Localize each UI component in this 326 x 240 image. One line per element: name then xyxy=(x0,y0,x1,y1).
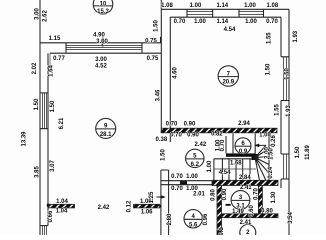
svg-text:1.00: 1.00 xyxy=(186,174,198,180)
svg-text:0.80: 0.80 xyxy=(261,209,273,215)
svg-text:1.50: 1.50 xyxy=(154,20,160,32)
svg-text:0.75: 0.75 xyxy=(145,38,157,44)
svg-text:1.55: 1.55 xyxy=(267,32,273,44)
window room7 top B xyxy=(239,9,264,17)
hatched wall stair bottom xyxy=(212,180,278,185)
tick black B xyxy=(160,205,162,208)
wall right outer xyxy=(288,9,290,235)
svg-text:1.50: 1.50 xyxy=(269,148,275,160)
svg-text:0.70: 0.70 xyxy=(266,19,278,25)
svg-text:1.00: 1.00 xyxy=(259,133,271,139)
room circle 2 xyxy=(240,225,256,240)
svg-text:1.14: 1.14 xyxy=(216,19,228,25)
stair dimension line xyxy=(214,168,256,170)
svg-text:1.00: 1.00 xyxy=(194,19,206,25)
wall center vertical outer xyxy=(160,0,162,133)
svg-text:0.70: 0.70 xyxy=(166,122,178,128)
svg-text:0.70: 0.70 xyxy=(220,139,226,151)
room circle 5 xyxy=(186,149,204,168)
svg-text:1.08: 1.08 xyxy=(267,3,279,9)
svg-text:4.54: 4.54 xyxy=(219,170,231,176)
svg-text:4.54: 4.54 xyxy=(224,27,236,33)
stair shaft wall xyxy=(268,133,270,181)
svg-text:2.01: 2.01 xyxy=(193,192,205,198)
hatched wall bottom left B xyxy=(134,204,160,208)
door pier black xyxy=(180,181,187,184)
wall left inner xyxy=(47,53,49,225)
svg-text:3.00: 3.00 xyxy=(35,8,41,20)
svg-text:1.00: 1.00 xyxy=(245,19,257,25)
stair box xyxy=(214,159,252,181)
hatched wall room3 bottom xyxy=(222,214,279,218)
svg-text:0.70: 0.70 xyxy=(174,19,186,25)
svg-text:1.50: 1.50 xyxy=(266,63,272,75)
svg-text:15.3: 15.3 xyxy=(97,9,109,15)
door tick room3 xyxy=(226,204,231,206)
svg-text:5.6: 5.6 xyxy=(189,222,198,228)
svg-text:2.62: 2.62 xyxy=(43,10,49,22)
wall room9 top outer xyxy=(40,42,161,44)
stair walk line xyxy=(255,145,266,157)
extension line 4.90 xyxy=(101,35,105,47)
svg-text:0.90: 0.90 xyxy=(184,122,196,128)
svg-text:1.14: 1.14 xyxy=(216,3,228,9)
svg-text:6.21: 6.21 xyxy=(59,117,65,129)
svg-text:0.66: 0.66 xyxy=(48,210,54,222)
svg-text:1.04: 1.04 xyxy=(56,199,68,205)
hatched wall mid horizontal xyxy=(161,128,277,133)
svg-text:2.42: 2.42 xyxy=(195,142,207,148)
wall right inner xyxy=(280,17,282,188)
svg-text:20.9: 20.9 xyxy=(222,80,234,86)
room6 wall right xyxy=(254,134,256,161)
svg-text:2.84: 2.84 xyxy=(239,175,251,181)
svg-text:0.60: 0.60 xyxy=(249,205,255,217)
svg-text:3.85: 3.85 xyxy=(34,166,40,178)
wall room7 top outer xyxy=(161,8,289,10)
svg-text:1.93: 1.93 xyxy=(293,30,299,42)
wall room7 top inner xyxy=(170,16,281,18)
room6 wall bottom black xyxy=(226,153,255,156)
svg-text:2.94: 2.94 xyxy=(238,121,250,127)
svg-text:2.80: 2.80 xyxy=(167,213,173,225)
svg-text:1.30: 1.30 xyxy=(271,191,277,203)
svg-text:0.77: 0.77 xyxy=(53,56,65,62)
svg-text:2.41: 2.41 xyxy=(240,220,252,226)
room circle 10 xyxy=(93,0,113,15)
door arrow bottom xyxy=(157,196,163,198)
svg-text:10: 10 xyxy=(100,1,107,7)
svg-text:0.26: 0.26 xyxy=(271,135,277,147)
svg-text:3.00: 3.00 xyxy=(95,57,107,63)
svg-text:3.00: 3.00 xyxy=(96,39,108,45)
hatched wall bottom left A xyxy=(49,204,75,208)
wall room9 top inner xyxy=(50,52,161,54)
svg-text:1.68: 1.68 xyxy=(230,160,242,166)
walls and windows group xyxy=(40,0,289,235)
svg-text:1.50: 1.50 xyxy=(50,100,56,112)
svg-text:2.41: 2.41 xyxy=(240,185,252,191)
svg-text:1.15: 1.15 xyxy=(49,36,61,42)
svg-text:0.96: 0.96 xyxy=(203,213,209,225)
svg-text:1.50: 1.50 xyxy=(161,149,167,161)
svg-text:0.70: 0.70 xyxy=(171,186,183,192)
svg-text:1.55: 1.55 xyxy=(275,104,281,116)
wall center vertical inner xyxy=(169,17,171,142)
svg-text:1.25: 1.25 xyxy=(149,191,155,203)
svg-text:0.70: 0.70 xyxy=(171,174,183,180)
svg-text:13.39: 13.39 xyxy=(22,131,28,147)
wall room5 room4 divider xyxy=(161,181,218,185)
svg-text:3.07: 3.07 xyxy=(50,160,56,172)
svg-text:6.2: 6.2 xyxy=(191,162,200,168)
window room9 top xyxy=(66,43,142,53)
window right upper xyxy=(281,57,289,101)
svg-text:1.64: 1.64 xyxy=(49,65,55,77)
svg-text:0.38: 0.38 xyxy=(156,137,168,143)
svg-text:1.00: 1.00 xyxy=(207,160,213,172)
hatched wall room3 right xyxy=(258,186,262,214)
svg-text:1.50: 1.50 xyxy=(295,146,301,158)
svg-text:1.93: 1.93 xyxy=(286,105,292,117)
svg-text:0.1: 0.1 xyxy=(219,227,225,235)
room circle 6 xyxy=(235,138,251,155)
svg-text:1.00: 1.00 xyxy=(190,3,202,9)
svg-text:3.54: 3.54 xyxy=(288,212,294,224)
svg-text:4.90: 4.90 xyxy=(93,33,105,39)
room circle 9 xyxy=(96,118,116,138)
svg-text:1.49: 1.49 xyxy=(232,209,244,215)
svg-text:1.08: 1.08 xyxy=(161,3,173,9)
svg-text:0.80: 0.80 xyxy=(211,189,217,201)
svg-text:4.60: 4.60 xyxy=(173,67,179,79)
window room7 top A xyxy=(187,9,213,17)
window right lower xyxy=(281,154,289,179)
svg-text:0.9: 0.9 xyxy=(239,149,248,155)
room circle 4 xyxy=(184,210,202,229)
svg-text:1.04: 1.04 xyxy=(56,208,68,214)
room circle 7 xyxy=(218,66,238,86)
window left wall bottom xyxy=(40,225,48,227)
stair winder treads xyxy=(255,149,269,181)
svg-text:11.89: 11.89 xyxy=(305,144,311,159)
wall center vertical lower xyxy=(161,170,169,235)
hatched wall room4 room2 divider xyxy=(217,186,222,236)
svg-text:2.42: 2.42 xyxy=(98,205,110,211)
svg-text:0.82: 0.82 xyxy=(211,132,223,138)
wall left outer xyxy=(39,0,41,235)
svg-text:0.90: 0.90 xyxy=(187,132,199,138)
extension line 0.77 xyxy=(48,53,52,68)
svg-text:28.1: 28.1 xyxy=(100,132,112,138)
svg-text:0.75: 0.75 xyxy=(147,56,159,62)
room6 wall left xyxy=(226,134,233,154)
svg-text:0.90: 0.90 xyxy=(222,188,228,200)
svg-text:3.46: 3.46 xyxy=(156,89,162,101)
svg-text:2.02: 2.02 xyxy=(32,62,38,74)
svg-text:4.52: 4.52 xyxy=(95,64,107,70)
stair walk arrow head xyxy=(254,144,259,148)
svg-text:1.06: 1.06 xyxy=(141,210,153,216)
nook 0.75 edge xyxy=(160,37,162,43)
room circle 3 xyxy=(231,191,250,210)
svg-text:0.12: 0.12 xyxy=(127,200,133,212)
svg-text:1.00: 1.00 xyxy=(244,3,256,9)
stair treads xyxy=(222,159,250,181)
window left wall upper xyxy=(40,93,48,129)
svg-text:0.24: 0.24 xyxy=(268,166,274,178)
svg-text:1.50: 1.50 xyxy=(34,98,40,110)
svg-text:1.50: 1.50 xyxy=(285,68,291,80)
tick black A xyxy=(47,204,49,207)
stair newel post xyxy=(252,154,259,160)
svg-text:0.70: 0.70 xyxy=(170,132,182,138)
svg-text:0.70: 0.70 xyxy=(254,188,260,200)
